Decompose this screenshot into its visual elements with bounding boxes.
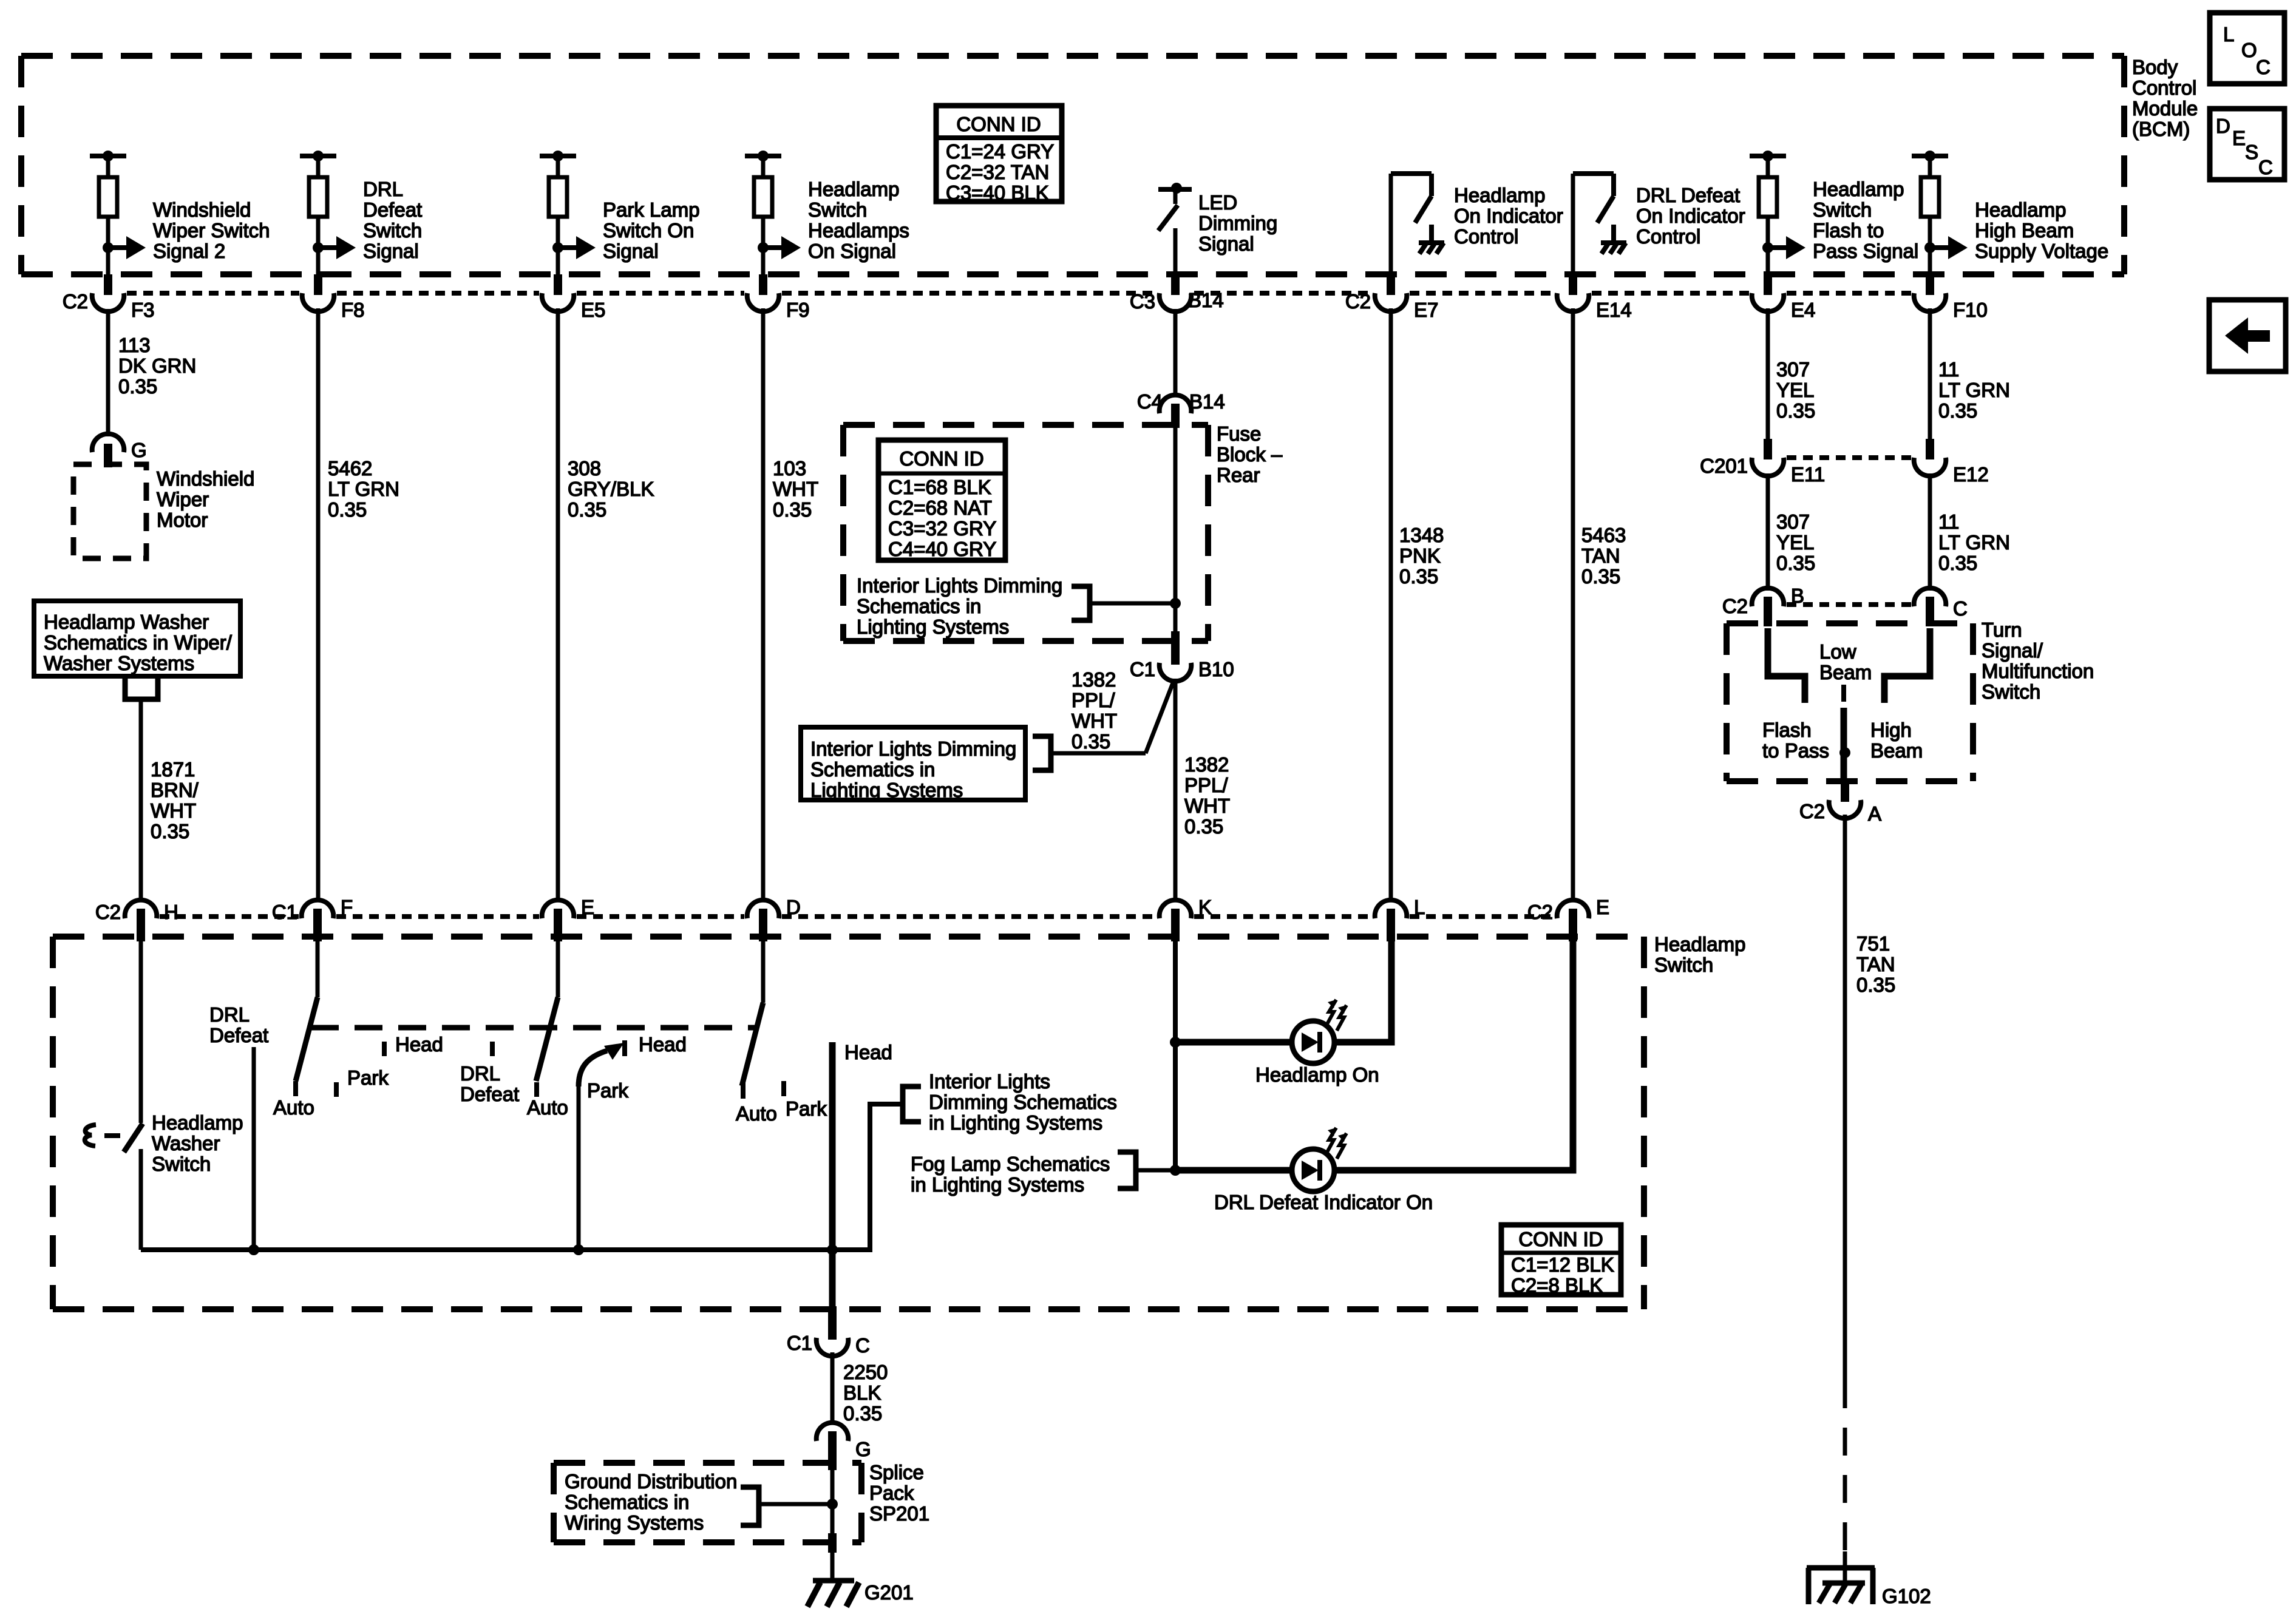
label Body Control Module (BCM) <box>2132 56 2198 140</box>
svg-text:Headlamp: Headlamp <box>152 1111 243 1134</box>
svg-text:DRL: DRL <box>460 1062 500 1085</box>
svg-text:Park: Park <box>347 1066 389 1089</box>
wire B14 to fuse block <box>1173 309 1178 398</box>
label DRL Defeat Switch Signal <box>363 178 422 262</box>
switch gang mechanical dashed link <box>311 1025 758 1031</box>
label Windshield Wiper Motor <box>157 467 254 531</box>
wire D into switch <box>761 941 766 1003</box>
Headlamp On indicator driver symbol E7 <box>1391 174 1432 274</box>
Auto contact tick (group3) <box>741 1083 746 1099</box>
wire 5463 TAN <box>1571 308 1575 902</box>
label Low Beam <box>1819 640 1872 683</box>
Interior Lights Dimming reference box <box>801 727 1025 801</box>
Park contact tick (group3) <box>781 1081 786 1096</box>
wire 308 GRY/BLK <box>556 308 560 902</box>
svg-text:Flash to: Flash to <box>1813 219 1884 242</box>
svg-text:F3: F3 <box>131 299 155 321</box>
svg-text:Pass Signal: Pass Signal <box>1813 240 1918 262</box>
svg-text:B: B <box>1791 585 1804 607</box>
connector C2 pin F3 <box>63 274 155 321</box>
svg-text:DRL Defeat: DRL Defeat <box>1636 184 1740 206</box>
turn signal switch dotted connector line <box>1787 602 1911 607</box>
wire 751 TAN dashed segment <box>1843 1380 1847 1551</box>
wire resistor to connector E5 <box>556 217 560 274</box>
svg-text:CONN ID: CONN ID <box>1518 1228 1603 1250</box>
svg-text:B14: B14 <box>1188 289 1224 311</box>
svg-text:C1=24 GRY: C1=24 GRY <box>946 140 1054 163</box>
wire washer switch to bus <box>139 1149 143 1250</box>
svg-text:C2: C2 <box>1722 595 1748 617</box>
svg-text:0.35: 0.35 <box>1581 565 1620 588</box>
svg-text:Block –: Block – <box>1217 443 1283 466</box>
switch blade E <box>536 997 558 1081</box>
high beam contact wire <box>1884 628 1930 703</box>
svg-text:PNK: PNK <box>1399 544 1441 567</box>
label LED Dimming Signal <box>1198 191 1277 255</box>
wire 103 WHT <box>761 308 766 902</box>
arrow DRL Defeat Switch Signal <box>313 236 356 259</box>
svg-text:1382: 1382 <box>1184 753 1229 776</box>
svg-text:Dimming: Dimming <box>1198 212 1277 234</box>
label DRL Defeat On Indicator Control <box>1636 184 1745 248</box>
connector C2 pin E7 <box>1345 274 1439 321</box>
connector C4 pin B14 (fuse block) <box>1137 390 1225 428</box>
svg-text:Defeat: Defeat <box>460 1083 519 1105</box>
bracket under washer reference box <box>125 676 158 699</box>
svg-text:G102: G102 <box>1882 1585 1931 1607</box>
wire LED to E <box>1334 941 1573 1170</box>
svg-text:LT GRN: LT GRN <box>328 478 399 500</box>
svg-text:TAN: TAN <box>1856 953 1895 975</box>
svg-text:K: K <box>1198 896 1212 918</box>
svg-text:G201: G201 <box>864 1581 914 1604</box>
supply T-bar (Windshield Wiper Switch Signal 2) <box>90 151 126 180</box>
connector pin D <box>747 896 801 941</box>
headlamp switch common bus wire <box>141 1104 903 1250</box>
label Fog Lamp Schematics <box>911 1153 1110 1196</box>
wire 11 LT GRN lower <box>1928 473 1932 591</box>
svg-text:0.35: 0.35 <box>1776 399 1815 422</box>
label wire 103 WHT 0.35 <box>773 457 818 521</box>
svg-text:Lighting Systems: Lighting Systems <box>857 615 1009 638</box>
svg-text:DRL Defeat Indicator On: DRL Defeat Indicator On <box>1214 1191 1433 1213</box>
wire through splice pack <box>830 1451 835 1578</box>
svg-text:C: C <box>855 1334 870 1357</box>
Headlamp Switch dashed box <box>53 937 1644 1309</box>
headlamp switch dotted connector line <box>160 914 1554 919</box>
svg-text:Windshield: Windshield <box>153 198 251 221</box>
svg-text:Headlamp: Headlamp <box>1454 184 1545 206</box>
wire F into switch <box>316 941 320 997</box>
svg-text:Windshield: Windshield <box>157 467 254 490</box>
svg-text:Signal: Signal <box>363 240 419 262</box>
CONN ID table BCM <box>936 106 1062 204</box>
svg-text:F10: F10 <box>1953 299 1988 321</box>
svg-text:0.35: 0.35 <box>773 498 812 521</box>
svg-text:Headlamp: Headlamp <box>808 178 899 200</box>
svg-text:0.35: 0.35 <box>1184 815 1223 838</box>
connector C2 pin E (8-way) <box>1527 896 1609 941</box>
Head contact tick (group1) <box>382 1042 387 1056</box>
connector pin C <box>1914 588 1968 626</box>
svg-text:SP201: SP201 <box>869 1502 929 1525</box>
svg-text:WHT: WHT <box>151 799 196 822</box>
svg-text:11: 11 <box>1938 510 1959 533</box>
svg-text:Switch: Switch <box>1813 198 1872 221</box>
svg-text:C2: C2 <box>1527 901 1553 923</box>
svg-text:H: H <box>164 901 178 923</box>
label wire 5462 LT GRN 0.35 <box>328 457 399 521</box>
connector C1 pin B10 <box>1130 631 1234 681</box>
svg-text:Motor: Motor <box>157 509 208 531</box>
svg-text:(BCM): (BCM) <box>2132 118 2190 140</box>
svg-text:S: S <box>2245 141 2258 163</box>
svg-text:WHT: WHT <box>1072 710 1117 732</box>
svg-text:E: E <box>2232 127 2246 149</box>
label Headlamp High Beam Supply Voltage <box>1975 198 2108 262</box>
svg-text:0.35: 0.35 <box>568 498 606 521</box>
Windshield Wiper Motor dashed box <box>73 464 146 558</box>
ground G102 <box>1807 1551 1875 1604</box>
svg-text:Park: Park <box>786 1097 827 1120</box>
junction dot DRL row <box>1170 1165 1181 1176</box>
svg-text:Washer: Washer <box>152 1132 220 1154</box>
junction dot bus DRL defeat <box>248 1244 259 1255</box>
supply T-bar (DRL Defeat Switch Signal) <box>300 151 336 180</box>
svg-text:Flash: Flash <box>1762 719 1812 741</box>
resistor (Park Lamp Switch On Signal) <box>549 177 567 217</box>
C201 dotted connector line <box>1787 455 1911 460</box>
label Headlamp Switch Headlamps On Signal <box>808 178 909 262</box>
Auto contact tick (group2) <box>534 1082 539 1097</box>
label wire 308 GRY/BLK 0.35 <box>568 457 654 521</box>
svg-text:0.35: 0.35 <box>1776 552 1815 574</box>
svg-text:Low: Low <box>1819 640 1856 663</box>
label wire 113 DK GRN 0.35 <box>118 334 196 398</box>
svg-text:0.35: 0.35 <box>843 1402 882 1425</box>
ground G201 <box>807 1581 859 1607</box>
wire ground bracket to splice <box>759 1502 832 1507</box>
wire through fuse block <box>1173 425 1178 663</box>
svg-text:E11: E11 <box>1791 463 1825 486</box>
svg-text:Pack: Pack <box>869 1482 914 1504</box>
DESC reference box <box>2210 109 2284 180</box>
svg-text:Headlamp On: Headlamp On <box>1255 1063 1379 1086</box>
svg-text:C4=40 GRY: C4=40 GRY <box>888 538 996 560</box>
svg-text:Head: Head <box>844 1041 892 1063</box>
flash-to-pass contact wire <box>1768 628 1805 703</box>
svg-text:YEL: YEL <box>1776 379 1814 401</box>
svg-text:0.35: 0.35 <box>1072 730 1110 753</box>
label Ground Distribution Schematics <box>565 1470 737 1534</box>
label Headlamp Switch Flash to Pass Signal <box>1813 178 1918 262</box>
svg-text:0.35: 0.35 <box>328 498 367 521</box>
junction dot fuse block <box>1170 598 1181 609</box>
svg-text:GRY/BLK: GRY/BLK <box>568 478 654 500</box>
LED dimming switch blade <box>1158 205 1178 231</box>
DRL Defeat contact tick (group2) <box>490 1042 495 1056</box>
svg-text:Switch: Switch <box>1654 954 1713 976</box>
svg-text:Headlamp: Headlamp <box>1975 198 2066 221</box>
connector pin F8 <box>302 274 365 321</box>
svg-text:C1=68 BLK: C1=68 BLK <box>888 476 991 498</box>
BCM connector dotted line <box>127 291 1911 296</box>
LOC reference box <box>2210 13 2284 84</box>
svg-text:A: A <box>1868 802 1881 825</box>
svg-text:Turn: Turn <box>1982 619 2022 641</box>
connector pin G (wiper motor) <box>92 434 147 467</box>
resistor (Headlamp Switch Flash to Pass Signal) <box>1759 177 1777 217</box>
connector pin F9 <box>747 274 810 321</box>
label Interior Lights Dimming (headlamp switch) <box>929 1070 1117 1134</box>
diagonal branch to interior lights dimming box <box>1146 680 1174 753</box>
connector C201 pin E11 <box>1700 439 1825 486</box>
switch blade F <box>296 997 318 1081</box>
svg-text:in Lighting Systems: in Lighting Systems <box>911 1173 1084 1196</box>
label Headlamp Washer Switch <box>152 1111 243 1175</box>
label wire 1871 BRN/WHT 0.35 <box>151 758 199 842</box>
svg-text:YEL: YEL <box>1776 531 1814 554</box>
svg-text:Park: Park <box>587 1079 628 1102</box>
resistor (Headlamp Switch Headlamps On Signal) <box>754 177 772 217</box>
svg-text:E: E <box>581 896 594 918</box>
svg-text:Interior Lights Dimming: Interior Lights Dimming <box>857 574 1062 597</box>
svg-text:F9: F9 <box>786 299 810 321</box>
headlamp washer switch blade <box>124 1124 143 1152</box>
label Splice Pack SP201 <box>869 1461 929 1525</box>
svg-text:E14: E14 <box>1596 299 1632 321</box>
svg-text:307: 307 <box>1776 358 1810 381</box>
connector pin E <box>542 896 594 941</box>
svg-text:E: E <box>1596 896 1609 918</box>
splice pack dashed box <box>554 1463 861 1542</box>
svg-text:CONN ID: CONN ID <box>899 447 983 470</box>
svg-text:C2: C2 <box>1345 290 1371 313</box>
wire resistor to arrow junction F3 <box>106 217 110 274</box>
svg-text:BLK: BLK <box>843 1381 881 1404</box>
svg-text:Signal: Signal <box>1198 232 1254 255</box>
svg-text:308: 308 <box>568 457 601 480</box>
svg-text:Switch: Switch <box>808 198 867 221</box>
svg-text:C1=12 BLK: C1=12 BLK <box>1511 1253 1614 1276</box>
LED DRL Defeat indicator <box>1292 1128 1347 1192</box>
connector pin E5 <box>542 274 606 321</box>
svg-text:Multifunction: Multifunction <box>1982 660 2094 682</box>
svg-text:751: 751 <box>1856 932 1890 955</box>
svg-text:Fog Lamp Schematics: Fog Lamp Schematics <box>911 1153 1110 1175</box>
wire bracket to fuse wire <box>1090 602 1175 606</box>
wire 1382 PPL/WHT to headlamp switch <box>1173 679 1178 902</box>
svg-text:Schematics in: Schematics in <box>565 1491 689 1513</box>
svg-text:C3=40 BLK: C3=40 BLK <box>946 181 1049 204</box>
svg-text:E7: E7 <box>1414 299 1438 321</box>
svg-text:Schematics in Wiper/: Schematics in Wiper/ <box>44 631 233 654</box>
svg-text:5463: 5463 <box>1581 524 1626 546</box>
label DRL Defeat (group1) <box>209 1003 268 1046</box>
svg-text:Lighting Systems: Lighting Systems <box>810 779 963 801</box>
svg-text:B10: B10 <box>1198 658 1234 680</box>
connector pin E4 <box>1752 274 1816 321</box>
label Headlamp On Indicator Control <box>1454 184 1563 248</box>
svg-text:1382: 1382 <box>1072 668 1116 691</box>
svg-text:LT GRN: LT GRN <box>1938 531 2010 554</box>
svg-text:On Indicator: On Indicator <box>1454 205 1563 227</box>
svg-text:Wiring Systems: Wiring Systems <box>565 1511 704 1534</box>
svg-text:in Lighting Systems: in Lighting Systems <box>929 1111 1102 1134</box>
svg-text:DRL: DRL <box>363 178 403 200</box>
svg-text:High: High <box>1870 719 1912 741</box>
svg-text:D: D <box>786 896 801 918</box>
bracket Fog Lamp Schematics <box>1118 1152 1136 1188</box>
headlamp washer switch spring <box>85 1125 96 1146</box>
Headlamp Washer Schematics reference box <box>34 601 240 676</box>
connector C1 pin C <box>787 1306 870 1357</box>
wire 1871 BRN/WHT <box>139 699 143 902</box>
svg-text:Switch: Switch <box>363 219 422 242</box>
svg-text:Switch: Switch <box>152 1153 211 1175</box>
svg-text:307: 307 <box>1776 510 1810 533</box>
supply T-bar (Headlamp Switch Flash to Pass Signal) <box>1750 151 1786 180</box>
svg-text:Signal: Signal <box>603 240 659 262</box>
connector pin L <box>1375 896 1425 941</box>
wire resistor to connector E4 <box>1766 217 1770 274</box>
svg-text:Auto: Auto <box>273 1096 314 1119</box>
svg-text:F: F <box>341 896 353 918</box>
wire 751 TAN <box>1843 815 1847 1380</box>
label High Beam <box>1870 719 1923 762</box>
BCM module dashed box <box>21 56 2124 274</box>
label Park Lamp Switch On Signal <box>603 198 700 262</box>
svg-text:PPL/: PPL/ <box>1184 774 1228 796</box>
svg-text:Signal 2: Signal 2 <box>153 240 225 262</box>
wire 5462 LT GRN <box>316 308 321 902</box>
wire resistor to connector F9 <box>761 217 766 274</box>
svg-text:113: 113 <box>118 334 151 356</box>
connector pin G (splice) <box>817 1422 871 1470</box>
svg-text:Head: Head <box>639 1033 687 1056</box>
svg-text:C1: C1 <box>272 901 297 923</box>
svg-text:Wiper: Wiper <box>157 488 209 510</box>
switch blade D <box>742 1003 763 1086</box>
svg-text:Auto: Auto <box>527 1096 568 1119</box>
svg-text:Control: Control <box>2132 76 2196 99</box>
DRL Defeat contact wire (group1) <box>252 1047 256 1250</box>
svg-text:103: 103 <box>773 457 806 480</box>
svg-text:Supply Voltage: Supply Voltage <box>1975 240 2108 262</box>
bracket Interior Lights Dimming (fuse block) <box>1072 586 1090 620</box>
svg-text:Defeat: Defeat <box>209 1024 268 1046</box>
wire LED to L <box>1334 941 1391 1042</box>
svg-text:Switch On: Switch On <box>603 219 694 242</box>
wire LED dimming to connector B14 <box>1173 228 1178 274</box>
resistor (DRL Defeat Switch Signal) <box>309 177 327 217</box>
svg-text:TAN: TAN <box>1581 544 1620 567</box>
resistor (Headlamp High Beam Supply Voltage) <box>1921 177 1939 217</box>
svg-text:Headlamp Washer: Headlamp Washer <box>44 611 209 633</box>
momentary curve Park to Head (group2) <box>579 1051 607 1086</box>
svg-text:Interior Lights: Interior Lights <box>929 1070 1050 1093</box>
CONN ID table fuse block <box>878 440 1005 560</box>
Auto contact tick (group1) <box>293 1081 298 1096</box>
Head contact wire (group3) <box>829 1042 836 1309</box>
junction dot bus Park <box>573 1244 584 1255</box>
splice box bottom stub <box>828 1533 837 1553</box>
CONN ID table headlamp switch <box>1501 1225 1621 1297</box>
svg-text:0.35: 0.35 <box>1938 552 1977 574</box>
back-arrow reference box <box>2209 300 2286 371</box>
svg-text:High Beam: High Beam <box>1975 219 2074 242</box>
svg-text:C2=32 TAN: C2=32 TAN <box>946 161 1049 183</box>
svg-text:2250: 2250 <box>843 1361 888 1383</box>
ground (Headlamp On Indicator driver) <box>1419 225 1444 254</box>
wire 11 LT GRN upper <box>1928 308 1932 439</box>
connector C2 pin A <box>1799 781 1881 825</box>
svg-text:Headlamp: Headlamp <box>1654 933 1745 955</box>
wire resistor to connector F8 <box>316 217 321 274</box>
junction dot headlamp-on row <box>1170 1037 1181 1048</box>
connector C2 pin H <box>95 900 178 941</box>
junction dot SP201 <box>827 1499 838 1510</box>
wire junction to Headlamp On LED <box>1175 1039 1292 1046</box>
svg-text:C: C <box>2258 156 2273 178</box>
Head contact tick (group2) <box>622 1040 627 1056</box>
svg-text:Head: Head <box>395 1033 443 1056</box>
svg-text:Dimming Schematics: Dimming Schematics <box>929 1091 1117 1113</box>
svg-text:Wiper Switch: Wiper Switch <box>153 219 270 242</box>
svg-text:Switch: Switch <box>1982 680 2040 703</box>
label Windshield Wiper Switch Signal 2 <box>153 198 270 262</box>
svg-text:E4: E4 <box>1791 299 1815 321</box>
wire 113 DK GRN <box>106 309 110 436</box>
wire E into switch <box>556 941 560 997</box>
label wire 11 LT GRN 0.35 upper <box>1938 358 2010 422</box>
label Headlamp Switch <box>1654 933 1745 976</box>
svg-text:Auto: Auto <box>736 1102 777 1125</box>
LED dimming driver T-bar <box>1158 183 1192 204</box>
Park contact tick (group1) <box>334 1082 339 1097</box>
svg-text:Ground Distribution: Ground Distribution <box>565 1470 737 1493</box>
svg-text:On Indicator: On Indicator <box>1636 205 1745 227</box>
label wire 1382 PPL/WHT upper <box>1072 668 1117 753</box>
wire fog bracket to junction <box>1136 1168 1175 1173</box>
label wire 2250 BLK 0.35 <box>843 1361 888 1425</box>
connector pin F10 <box>1914 274 1988 321</box>
connector pin E12 <box>1914 439 1989 486</box>
svg-text:Control: Control <box>1454 225 1518 248</box>
svg-text:Schematics in: Schematics in <box>810 758 935 781</box>
svg-text:WHT: WHT <box>773 478 818 500</box>
label Interior Lights Dimming Schematics (fuse block) <box>857 574 1062 638</box>
connector C1 pin F <box>272 896 353 941</box>
svg-text:Headlamps: Headlamps <box>808 219 909 242</box>
label wire 11 LT GRN 0.35 lower <box>1938 510 2010 574</box>
DRL Defeat indicator driver symbol E14 <box>1573 174 1614 274</box>
supply T-bar (Park Lamp Switch On Signal) <box>540 151 576 180</box>
connector C2 pin B <box>1722 585 1804 626</box>
wire 1348 PNK <box>1389 308 1393 902</box>
svg-text:5462: 5462 <box>328 457 372 480</box>
arrow Park Lamp Switch On Signal <box>552 236 596 259</box>
svg-text:PPL/: PPL/ <box>1072 689 1115 711</box>
svg-text:L: L <box>2223 23 2234 46</box>
label Fuse Block - Rear <box>1217 422 1283 486</box>
supply T-bar (Headlamp Switch Headlamps On Signal) <box>745 151 781 180</box>
svg-text:G: G <box>131 439 147 461</box>
svg-text:C1: C1 <box>1130 658 1155 680</box>
low beam pole dashed tick <box>1841 685 1846 702</box>
svg-text:C2=8 BLK: C2=8 BLK <box>1511 1274 1603 1297</box>
wire K to LED junction <box>1173 941 1178 1172</box>
